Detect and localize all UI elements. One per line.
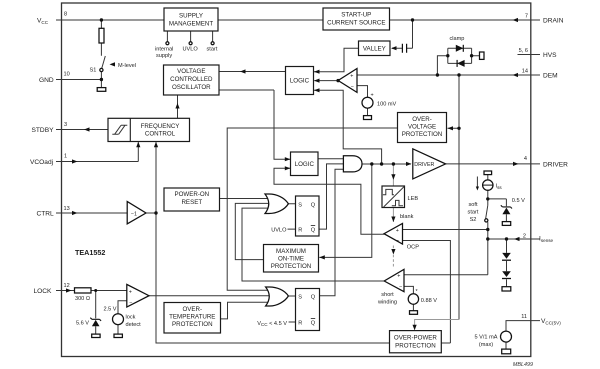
svg-text:−: − bbox=[399, 285, 402, 291]
svg-text:start: start bbox=[207, 47, 218, 53]
svg-text:PROTECTION: PROTECTION bbox=[271, 263, 312, 270]
svg-text:TEA1552: TEA1552 bbox=[75, 248, 105, 257]
svg-text:CONTROLLED: CONTROLLED bbox=[170, 76, 213, 83]
svg-text:100 mV: 100 mV bbox=[377, 101, 397, 107]
svg-text:GND: GND bbox=[39, 77, 54, 84]
svg-text:3: 3 bbox=[64, 122, 67, 128]
svg-text:MAXIMUM: MAXIMUM bbox=[276, 248, 306, 255]
svg-text:14: 14 bbox=[522, 69, 528, 75]
svg-text:VCC < 4.5 V: VCC < 4.5 V bbox=[257, 321, 287, 327]
svg-text:7: 7 bbox=[525, 14, 528, 20]
svg-text:2.5 V: 2.5 V bbox=[103, 307, 116, 313]
svg-text:LOCK: LOCK bbox=[34, 288, 53, 295]
svg-text:DRIVER: DRIVER bbox=[543, 161, 568, 168]
svg-text:+: + bbox=[371, 93, 374, 99]
svg-text:supply: supply bbox=[156, 53, 172, 59]
svg-text:5.6 V: 5.6 V bbox=[76, 321, 89, 327]
svg-text:2: 2 bbox=[523, 233, 526, 239]
svg-text:OVER-: OVER- bbox=[182, 306, 202, 313]
svg-text:5, 6: 5, 6 bbox=[519, 48, 528, 54]
svg-text:internal: internal bbox=[155, 47, 173, 53]
svg-text:S: S bbox=[298, 295, 302, 301]
svg-text:PROTECTION: PROTECTION bbox=[395, 342, 436, 349]
svg-text:LOGIC: LOGIC bbox=[290, 78, 310, 85]
svg-text:+: + bbox=[397, 274, 400, 280]
svg-text:LEB: LEB bbox=[408, 196, 419, 202]
svg-text:start: start bbox=[468, 210, 479, 216]
svg-text:FREQUENCY: FREQUENCY bbox=[141, 123, 180, 130]
svg-text:OVER-POWER: OVER-POWER bbox=[394, 334, 438, 341]
svg-text:−1: −1 bbox=[131, 211, 137, 217]
svg-text:PROTECTION: PROTECTION bbox=[402, 131, 443, 138]
svg-text:CTRL: CTRL bbox=[37, 211, 55, 218]
svg-text:−: − bbox=[351, 84, 354, 90]
svg-text:R: R bbox=[298, 321, 302, 327]
svg-text:PROTECTION: PROTECTION bbox=[172, 321, 213, 328]
svg-text:UVLO: UVLO bbox=[271, 228, 287, 234]
svg-text:0.5 V: 0.5 V bbox=[512, 198, 525, 204]
svg-text:5 V/1 mA: 5 V/1 mA bbox=[474, 335, 497, 341]
svg-text:clamp: clamp bbox=[450, 36, 465, 42]
svg-text:−: − bbox=[129, 300, 132, 306]
svg-text:4: 4 bbox=[524, 156, 527, 162]
svg-text:S1: S1 bbox=[90, 68, 97, 74]
svg-text:VOLTAGE: VOLTAGE bbox=[408, 124, 436, 131]
svg-text:12: 12 bbox=[64, 283, 70, 289]
svg-text:Q: Q bbox=[311, 202, 316, 208]
svg-text:UVLO: UVLO bbox=[183, 47, 199, 53]
svg-text:POWER-ON: POWER-ON bbox=[174, 191, 209, 198]
svg-text:+: + bbox=[396, 228, 399, 234]
svg-text:MANAGEMENT: MANAGEMENT bbox=[169, 21, 214, 28]
svg-text:SUPPLY: SUPPLY bbox=[179, 13, 203, 20]
svg-text:ON-TIME: ON-TIME bbox=[278, 256, 304, 263]
svg-text:TEMPERATURE: TEMPERATURE bbox=[169, 314, 215, 321]
svg-text:+: + bbox=[350, 74, 353, 80]
svg-text:Q: Q bbox=[311, 228, 316, 234]
svg-text:−: − bbox=[396, 238, 399, 244]
svg-text:8: 8 bbox=[64, 12, 67, 18]
svg-text:OVER-: OVER- bbox=[412, 116, 432, 123]
svg-text:R: R bbox=[298, 228, 302, 234]
svg-text:lock: lock bbox=[126, 315, 136, 321]
svg-text:START-UP: START-UP bbox=[341, 12, 371, 19]
svg-text:short: short bbox=[381, 292, 394, 298]
svg-text:VALLEY: VALLEY bbox=[363, 46, 386, 53]
svg-text:DEM: DEM bbox=[543, 73, 558, 80]
svg-text:CURRENT SOURCE: CURRENT SOURCE bbox=[327, 20, 385, 27]
svg-text:11: 11 bbox=[521, 314, 527, 320]
svg-text:LOGIC: LOGIC bbox=[295, 161, 315, 168]
svg-text:winding: winding bbox=[377, 300, 397, 306]
svg-text:OCP: OCP bbox=[407, 244, 419, 250]
svg-text:S: S bbox=[298, 202, 302, 208]
svg-text:MBL499: MBL499 bbox=[513, 362, 533, 368]
svg-text:soft: soft bbox=[468, 202, 477, 208]
svg-text:300 Ω: 300 Ω bbox=[75, 296, 90, 302]
svg-text:STDBY: STDBY bbox=[32, 127, 55, 134]
svg-text:DRAIN: DRAIN bbox=[543, 18, 564, 25]
svg-text:13: 13 bbox=[64, 206, 70, 212]
svg-text:(max): (max) bbox=[479, 342, 493, 348]
svg-text:M-level: M-level bbox=[118, 63, 136, 69]
svg-text:Q: Q bbox=[311, 295, 316, 301]
svg-text:Iss: Iss bbox=[496, 184, 503, 190]
svg-text:DRIVER: DRIVER bbox=[414, 162, 434, 168]
svg-text:10: 10 bbox=[64, 72, 70, 78]
svg-text:0.88 V: 0.88 V bbox=[421, 298, 437, 304]
svg-text:VCOadj: VCOadj bbox=[30, 159, 54, 166]
svg-text:blank: blank bbox=[400, 214, 414, 220]
svg-text:Q: Q bbox=[311, 321, 316, 327]
svg-text:1: 1 bbox=[64, 154, 67, 160]
svg-text:+: + bbox=[129, 289, 132, 295]
svg-text:detect: detect bbox=[126, 322, 142, 328]
svg-text:RESET: RESET bbox=[181, 199, 202, 206]
svg-text:HVS: HVS bbox=[543, 52, 557, 59]
svg-text:VOLTAGE: VOLTAGE bbox=[177, 68, 205, 75]
svg-text:OSCILLATOR: OSCILLATOR bbox=[172, 84, 211, 91]
svg-text:CONTROL: CONTROL bbox=[145, 131, 176, 138]
svg-text:S2: S2 bbox=[470, 217, 477, 223]
